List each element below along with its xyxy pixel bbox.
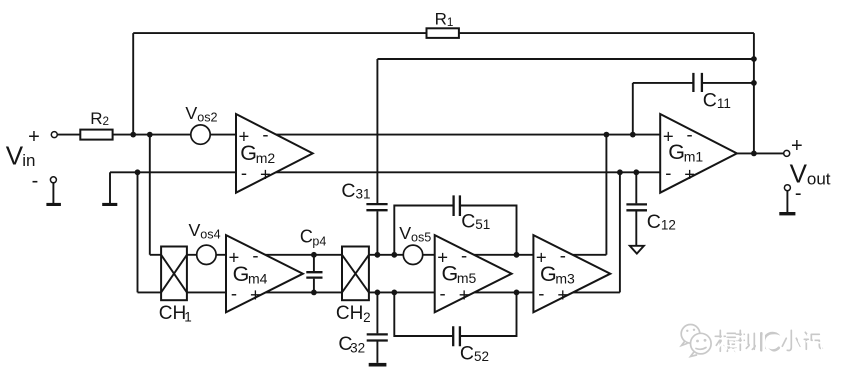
ground left input bbox=[102, 203, 117, 206]
svg-text:C: C bbox=[703, 89, 717, 111]
op-amp Gm4 bbox=[226, 235, 303, 312]
label Gm4 minus bottom bbox=[231, 283, 237, 304]
label Gm5 plus bottom bbox=[459, 284, 470, 305]
svg-text:12: 12 bbox=[661, 218, 676, 233]
label Vos4 bbox=[189, 220, 221, 242]
label Gm3 plus bottom bbox=[557, 284, 568, 305]
junction node Gm1- branch bbox=[617, 169, 623, 175]
svg-text:C: C bbox=[647, 211, 661, 233]
offset source Vos4 bbox=[197, 245, 216, 264]
wire C52 loop bbox=[394, 292, 516, 336]
label Gm1 bbox=[668, 140, 703, 165]
wire Vin- terminal stem bbox=[52, 183, 54, 203]
label Gm1 plus input bbox=[663, 126, 674, 147]
wire Vout- terminal stem bbox=[786, 191, 788, 212]
label Gm1 minus input bbox=[687, 124, 693, 145]
wire right feedback vertical bbox=[753, 33, 755, 153]
watermark logo bubbles bbox=[681, 325, 711, 357]
op-amp Gm2 bbox=[236, 114, 313, 193]
terminal Vout+ bbox=[784, 150, 790, 156]
label Gm3 bbox=[540, 262, 575, 287]
svg-text:+: + bbox=[536, 246, 547, 267]
label Gm2 minus bottom bbox=[241, 162, 247, 183]
svg-text:-: - bbox=[262, 124, 268, 145]
junction node C11 right bbox=[751, 80, 757, 86]
svg-text:-: - bbox=[241, 162, 247, 183]
label C51 bbox=[461, 210, 490, 232]
wire Gm1 output bbox=[737, 152, 784, 154]
wire row1 Gm2+ to Gm1+ bbox=[57, 134, 660, 136]
svg-text:+: + bbox=[238, 126, 249, 147]
svg-text:-: - bbox=[32, 170, 39, 192]
label Gm5 bbox=[442, 261, 477, 286]
svg-text:-: - bbox=[252, 245, 258, 266]
svg-text:1: 1 bbox=[184, 310, 192, 325]
wire ground stem left bbox=[109, 172, 111, 203]
label C12 bbox=[647, 211, 676, 233]
junction node Cp4 bottom bbox=[311, 290, 317, 296]
svg-text:+: + bbox=[684, 164, 695, 185]
wire lower bottom rail bbox=[138, 291, 620, 293]
svg-text:os2: os2 bbox=[197, 111, 217, 125]
junction node C52 left bbox=[391, 290, 397, 296]
svg-text:os4: os4 bbox=[200, 227, 220, 241]
label Gm5 minus input bbox=[461, 245, 467, 266]
junction node C31 bottom bbox=[375, 252, 381, 258]
label Gm1 minus bottom bbox=[665, 162, 671, 183]
wire row2 Gm2- to Gm1- bbox=[110, 171, 660, 173]
junction node R2/R1 tap bbox=[130, 132, 136, 138]
svg-text:CH: CH bbox=[336, 303, 363, 324]
label Gm4 plus bottom bbox=[250, 284, 261, 305]
capacitor C52 plates bbox=[453, 326, 460, 346]
label Gm5 minus bottom bbox=[440, 283, 446, 304]
svg-text:+: + bbox=[791, 135, 803, 157]
terminal Vout- bbox=[784, 185, 790, 191]
svg-text:in: in bbox=[22, 151, 35, 170]
junction node C32 top bbox=[375, 290, 381, 296]
svg-text:R: R bbox=[435, 10, 447, 29]
junction node C51 right bbox=[514, 252, 520, 258]
svg-text:+: + bbox=[557, 284, 568, 305]
capacitor Cp4 plates bbox=[306, 272, 322, 277]
label Vin bbox=[6, 140, 36, 170]
svg-text:-: - bbox=[440, 283, 446, 304]
svg-text:V: V bbox=[6, 140, 24, 170]
label Gm2 plus input bbox=[238, 126, 249, 147]
label Vout plus bbox=[791, 135, 803, 157]
junction node C51 left bbox=[391, 252, 397, 258]
svg-text:+: + bbox=[663, 126, 674, 147]
chopper CH1 bbox=[161, 247, 187, 301]
label Gm3 minus bottom bbox=[538, 283, 544, 304]
svg-text:51: 51 bbox=[475, 217, 490, 232]
ground Vin- bbox=[46, 203, 61, 206]
svg-text:os5: os5 bbox=[411, 231, 431, 245]
ground Vout- bbox=[779, 212, 795, 215]
wire Gm1- down to bottom rail bbox=[619, 172, 621, 292]
label R2 bbox=[90, 109, 109, 128]
junction node C11 left branch bbox=[630, 132, 636, 138]
op-amp Gm1 bbox=[660, 114, 737, 193]
label Gm3 minus input bbox=[560, 245, 566, 266]
svg-text:V: V bbox=[399, 223, 411, 243]
junction node Vin+ to CH1 bbox=[147, 132, 153, 138]
junction node C12 branch bbox=[633, 169, 639, 175]
wire second feedback row B bbox=[377, 58, 754, 60]
label C31 bbox=[341, 180, 370, 202]
svg-text:11: 11 bbox=[717, 96, 731, 111]
label Gm3 plus input bbox=[536, 246, 547, 267]
terminal Vin- bbox=[50, 177, 56, 183]
label Gm4 bbox=[233, 262, 268, 287]
offset source Vos2 bbox=[191, 125, 210, 144]
label Vout minus bbox=[795, 183, 802, 205]
svg-text:+: + bbox=[260, 164, 271, 185]
resistor R2 bbox=[80, 130, 112, 140]
ground C32 bbox=[369, 363, 387, 367]
svg-text:-: - bbox=[560, 245, 566, 266]
svg-text:V: V bbox=[185, 103, 197, 123]
label Vin minus bbox=[32, 170, 39, 192]
svg-text:2: 2 bbox=[363, 310, 371, 325]
junction node Vin- to CH1 bbox=[135, 169, 141, 175]
wire C31 column bbox=[376, 59, 378, 255]
wire C51 loop bbox=[394, 206, 516, 255]
svg-text:+: + bbox=[228, 246, 239, 267]
svg-text:out: out bbox=[807, 169, 831, 188]
svg-text:-: - bbox=[795, 183, 802, 205]
label Gm2 minus input bbox=[262, 124, 268, 145]
svg-text:+: + bbox=[459, 284, 470, 305]
junction node Cp4 top bbox=[311, 252, 317, 258]
svg-text:CH: CH bbox=[159, 303, 186, 324]
junction node C52 right bbox=[514, 290, 520, 296]
label Gm4 plus input bbox=[228, 246, 239, 267]
wire vertical from Vin+ node up to R1 row bbox=[132, 33, 134, 135]
svg-text:52: 52 bbox=[474, 349, 489, 364]
label CH2 bbox=[336, 303, 371, 325]
wire C12 stem bbox=[635, 172, 637, 246]
op-amp Gm5 bbox=[435, 235, 512, 312]
svg-text:2: 2 bbox=[103, 115, 110, 128]
svg-text:R: R bbox=[90, 109, 102, 128]
label Gm4 minus input bbox=[252, 245, 258, 266]
op-amp Gm3 bbox=[533, 235, 610, 312]
offset source Vos5 bbox=[403, 245, 422, 264]
label Cp4 bbox=[300, 226, 326, 248]
wire Cp4 stem bbox=[313, 255, 315, 293]
wire C11 horizontal bbox=[633, 82, 754, 84]
junction node row B feedback bbox=[751, 56, 757, 62]
label Gm2 bbox=[240, 141, 275, 166]
label C32 bbox=[338, 333, 365, 355]
junction node Gm1+ branch bbox=[604, 132, 610, 138]
wire C11 left vertical bbox=[632, 83, 634, 135]
wire top feedback row A bbox=[133, 32, 754, 34]
svg-text:-: - bbox=[665, 162, 671, 183]
svg-text:31: 31 bbox=[356, 187, 371, 202]
svg-text:+: + bbox=[437, 246, 448, 267]
svg-text:1: 1 bbox=[447, 16, 454, 29]
label Vos2 bbox=[185, 103, 217, 125]
resistor R1 bbox=[427, 28, 459, 38]
label CH1 bbox=[159, 303, 192, 325]
capacitor C51 plates bbox=[454, 195, 460, 216]
svg-text:-: - bbox=[538, 283, 544, 304]
label R1 bbox=[435, 10, 454, 29]
svg-text:p4: p4 bbox=[312, 234, 326, 248]
svg-text:C: C bbox=[341, 180, 355, 202]
svg-text:C: C bbox=[461, 210, 475, 232]
svg-text:+: + bbox=[250, 284, 261, 305]
ground arrow C12 bbox=[630, 246, 644, 254]
label Vout bbox=[790, 159, 831, 189]
capacitor C12 plates bbox=[626, 204, 647, 210]
svg-text:C: C bbox=[460, 343, 474, 365]
label Vin plus bbox=[28, 126, 40, 148]
label Gm1 plus bottom bbox=[684, 164, 695, 185]
svg-text:m1: m1 bbox=[684, 149, 704, 165]
svg-text:-: - bbox=[231, 283, 237, 304]
capacitor C32 plates bbox=[367, 334, 388, 340]
svg-text:-: - bbox=[461, 245, 467, 266]
capacitor C11 plates bbox=[693, 73, 702, 92]
chopper CH2 bbox=[342, 247, 369, 301]
wire Vin- down to CH1 bottom bbox=[137, 172, 139, 292]
wire Gm1+ down to top rail bbox=[605, 135, 607, 255]
wire lower top rail bbox=[150, 254, 607, 256]
svg-text:-: - bbox=[687, 124, 693, 145]
svg-text:V: V bbox=[189, 220, 201, 240]
wire Vin+ down to CH1 top bbox=[149, 135, 151, 255]
label Gm5 plus input bbox=[437, 246, 448, 267]
junction node output feedback bbox=[751, 151, 757, 157]
svg-text:32: 32 bbox=[350, 340, 365, 355]
watermark text bbox=[715, 330, 824, 353]
wire C32 column bbox=[376, 292, 378, 363]
label Gm2 plus bottom bbox=[260, 164, 271, 185]
svg-text:+: + bbox=[28, 126, 40, 148]
capacitor C31 plates bbox=[366, 204, 387, 210]
label C11 bbox=[703, 89, 731, 111]
label C52 bbox=[460, 343, 489, 365]
svg-text:C: C bbox=[300, 226, 313, 246]
terminal Vin+ bbox=[51, 132, 57, 138]
label Vos5 bbox=[399, 223, 431, 245]
